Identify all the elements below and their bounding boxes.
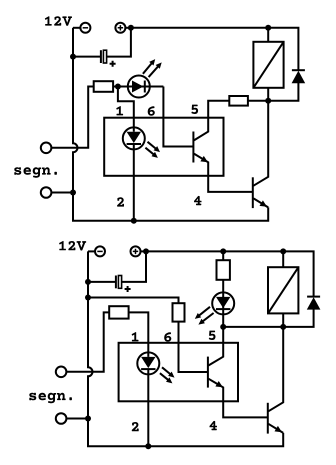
node pin2 bus junction (top) (131, 218, 137, 224)
wire pin 2 cathode down to bus (top) (133, 144, 135, 221)
transistor Q4 bar (267, 403, 269, 434)
LED D3 emission arrow 2 (202, 313, 213, 322)
diode D2 triangle (292, 71, 306, 83)
terminal segn top input (top) (41, 143, 52, 154)
opto U1 emitter arrowhead (200, 156, 208, 162)
transistor Q2 emitter arrowhead (260, 200, 268, 206)
optocoupler U2 box (119, 343, 238, 402)
LED D3 circle (212, 292, 234, 314)
capacitor C2 plus label (125, 286, 131, 292)
transistor Q4 emitter (268, 424, 283, 433)
node rail junction at positive terminal (top) (128, 25, 134, 31)
terminal 12V positive (bottom) (131, 246, 141, 256)
wire top rail with corner down to diode (bottom) (146, 251, 314, 296)
relay K2 diagonal (268, 267, 298, 313)
relay K1 box (253, 42, 283, 88)
wire capacitor to rail (top) (107, 28, 131, 57)
wire top rail with corner down to diode (top) (131, 28, 299, 70)
wire diode D4 to junction (283, 309, 313, 327)
label 12V (top) (45, 16, 72, 26)
opto U2 collector to pin 5 (bottom) (208, 327, 223, 366)
node capacitor junction (bottom) (85, 279, 91, 285)
relay K1 diagonal (253, 42, 283, 88)
opto U2 emitter to pin 4 and Q4 base (208, 379, 267, 418)
transistor Q2 bar (252, 177, 254, 208)
pin label 2 (top) (117, 197, 124, 206)
opto U1 emitter to pin 4 and Q2 base (194, 154, 253, 192)
opto U1 coupling arrow 2 (145, 148, 154, 155)
LED D1 emission arrow 2 (149, 66, 159, 77)
node R1 LED junction (top) (115, 84, 121, 90)
LED D1 circle (128, 76, 150, 98)
node pin2 bus junction (bottom) (145, 443, 151, 449)
opto U1 LED circle (123, 127, 145, 149)
wire R2 to relay junction (top) (248, 100, 268, 102)
wire junction to pin 1 (top) (118, 87, 134, 132)
wire capacitor to rail (bottom) (122, 251, 146, 282)
opto U2 coupling arrow 1 (162, 367, 171, 374)
pin label 6 (bottom) (164, 332, 171, 342)
resistor R2 (229, 96, 248, 106)
pin label 1 (top) (116, 106, 123, 115)
wire segn input to resistor R3 (bottom) (66, 312, 109, 371)
opto U1 LED cathode bar (127, 143, 141, 145)
wire pin6 feed to resistor R4 (bottom) (88, 298, 179, 304)
wire stub to minus terminal (top) (73, 27, 80, 29)
wire positive terminal to rail junction (bottom) (141, 250, 147, 252)
wire left bus with hop over signal wire (top) (73, 28, 268, 221)
wire rail to R5 (bottom) (222, 251, 224, 260)
wire left bus with hop over signal wire (bottom) (88, 251, 283, 446)
wire segn input to resistor R1 (top) (51, 87, 93, 148)
opto U1 LED triangle (127, 132, 141, 143)
transistor Q2 collector (253, 101, 268, 186)
opto U2 LED triangle (141, 357, 155, 368)
wire relay K1 to junction (267, 88, 269, 101)
terminal 12V negative (top) (80, 23, 90, 33)
node rail junction at relay (bottom) (280, 248, 286, 254)
wire R5 through LED D3 to junction (bottom) (222, 280, 224, 327)
resistor R1 (94, 81, 113, 92)
wire rail to relay K1 (267, 28, 269, 42)
wire rail to relay K2 (282, 251, 284, 267)
node segn bottom junction (top) (70, 190, 76, 196)
wire R1 to LED D1 (top) (113, 86, 163, 88)
diode D4 triangle (307, 297, 321, 309)
resistor R5 vertical LED feed (217, 260, 230, 280)
terminal 12V negative (bottom) (95, 246, 105, 256)
relay K2 box (268, 267, 298, 313)
diode D2 cathode bar (292, 69, 305, 71)
opto U2 coupling arrow 2 (160, 373, 169, 380)
wire segn bottom terminal to bus (top) (51, 192, 73, 194)
wire to capacitor (bottom) (88, 281, 116, 283)
resistor R3 (109, 306, 128, 318)
capacitor C1 plus label (110, 61, 116, 67)
wire junction to relay junction (bottom) (223, 326, 283, 328)
node segn bottom junction (bottom) (85, 416, 91, 422)
node capacitor junction (top) (70, 54, 76, 60)
wire pin 2 cathode down to bus (bottom) (147, 369, 149, 446)
wire to capacitor (top) (73, 56, 101, 58)
terminal segn top input (bottom) (56, 367, 67, 378)
node rail junction at positive terminal (bottom) (143, 248, 149, 254)
opto U1 coupling arrow 1 (148, 142, 157, 149)
pin label 5 (top) (191, 105, 198, 114)
wire diode D2 to junction (268, 83, 298, 101)
opto U2 emitter arrowhead (215, 381, 223, 387)
pin label 6 (top) (148, 106, 155, 116)
opto U2 phototransistor bar (207, 357, 209, 388)
LED D1 cathode bar (144, 81, 146, 93)
pin label 2 (bottom) (132, 422, 139, 431)
wire R3 to pin 1 (bottom) (129, 312, 149, 357)
wire positive terminal to rail junction (top) (125, 27, 130, 29)
wire R4 to pin 6 and base (bottom) (179, 322, 208, 372)
opto U2 LED circle (137, 352, 159, 374)
transistor Q2 emitter (253, 198, 268, 207)
LED D3 cathode bar (216, 308, 230, 310)
resistor R4 vertical (173, 303, 185, 321)
pin label 4 (top) (194, 196, 202, 205)
capacitor C1 negative plate (100, 50, 102, 63)
optocoupler U1 box (104, 118, 223, 176)
wire stub to minus terminal (bottom) (88, 250, 95, 252)
label 12V (bottom) (59, 241, 86, 251)
node pin5 LED junction (bottom) (220, 324, 226, 330)
wire segn bottom terminal to bus (bottom) (66, 418, 88, 420)
capacitor C2 positive plate (118, 276, 121, 289)
terminal 12V positive (top) (115, 23, 125, 33)
pin label 4 (bottom) (210, 421, 218, 430)
pin label 5 (bottom) (209, 331, 216, 340)
pin label 1 (bottom) (132, 332, 139, 341)
LED D3 triangle (216, 297, 230, 308)
node relay bottom junction (top) (265, 98, 271, 104)
diode D4 cathode bar (307, 296, 320, 298)
opto U1 collector to pin 5 and resistor R2 (194, 101, 229, 141)
transistor Q4 collector (268, 327, 283, 411)
capacitor C1 positive plate (103, 50, 106, 63)
opto U1 phototransistor bar (192, 132, 194, 163)
wire LED D1 to pin 6 (top) (163, 87, 193, 147)
node relay bottom junction (bottom) (280, 324, 286, 330)
terminal segn bottom input (top) (41, 187, 52, 198)
LED D3 emission arrow 1 (199, 307, 210, 316)
capacitor C2 negative plate (115, 276, 117, 289)
node pin6 resistor feed junction (bottom) (85, 295, 91, 301)
label segn. (top) (14, 167, 57, 178)
LED D1 triangle (132, 81, 143, 93)
LED D1 emission arrow 1 (143, 63, 152, 74)
opto U2 LED cathode bar (141, 368, 155, 370)
node rail junction at relay (top) (265, 25, 271, 31)
terminal segn bottom input (bottom) (56, 413, 67, 424)
transistor Q4 emitter arrowhead (275, 426, 283, 432)
node rail junction at LED resistor (bottom) (220, 248, 226, 254)
wire relay K2 to junction (282, 313, 284, 327)
label segn. (bottom) (29, 393, 72, 404)
